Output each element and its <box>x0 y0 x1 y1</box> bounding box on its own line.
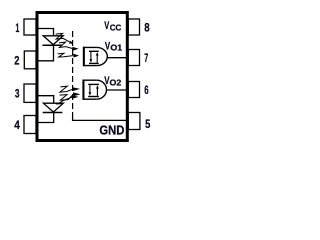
isolation barrier dashed line <box>72 31 74 115</box>
wire pin3 to LED D2 anode <box>37 96 54 104</box>
wire pin1 to LED D1 anode <box>37 29 54 36</box>
wire LED D2 cathode to pin4 <box>37 113 54 123</box>
detector U2 photodiode top bar <box>88 83 99 85</box>
svg-text:8: 8 <box>144 20 150 34</box>
svg-text:4: 4 <box>14 118 20 132</box>
photon arrow channel 2 third <box>56 95 79 104</box>
photon arrow channel 1 third <box>58 53 80 57</box>
wire LED D1 cathode to pin2 <box>37 45 54 61</box>
LED D2 triangle <box>43 103 63 112</box>
pin 6 box <box>128 82 139 98</box>
pin 4 box <box>24 116 36 134</box>
detector U2 D-shape outline <box>84 80 97 99</box>
svg-text:GND: GND <box>99 122 124 137</box>
photon arrow channel 1 first <box>56 33 73 44</box>
pin 7 box <box>128 50 139 66</box>
pin 8 box <box>128 19 139 35</box>
svg-text:O1: O1 <box>110 43 122 53</box>
wire detector U1 output to pin7 <box>107 57 128 59</box>
detector U1 left edge <box>83 47 85 67</box>
svg-text:3: 3 <box>15 87 20 101</box>
IC package body U1 <box>37 13 127 141</box>
detector U1 photodiode top bar <box>89 50 99 52</box>
svg-text:7: 7 <box>144 51 148 65</box>
photon arrow channel 1 second <box>59 42 79 51</box>
pin 2 box <box>24 51 36 69</box>
detector U1 photodiode bottom bar <box>89 62 99 64</box>
LED D2 cathode bar <box>43 112 63 114</box>
detector U1 up arrow <box>96 55 98 63</box>
svg-text:1: 1 <box>16 21 20 35</box>
LED D1 cathode bar <box>43 44 63 46</box>
svg-text:CC: CC <box>110 22 122 32</box>
svg-text:6: 6 <box>144 83 149 97</box>
detector U2 left edge <box>82 80 84 100</box>
detector U2 up arrow <box>96 88 98 96</box>
detector U1 D-shape outline <box>84 47 97 65</box>
detector U2 photodiode bottom bar <box>88 96 99 98</box>
svg-text:O2: O2 <box>110 78 122 88</box>
svg-text:5: 5 <box>145 117 150 131</box>
pin 3 box <box>24 84 36 102</box>
pin 5 box <box>128 113 140 130</box>
svg-text:2: 2 <box>14 53 19 67</box>
pin 1 box <box>24 19 36 35</box>
photon arrow channel 2 second <box>60 92 81 100</box>
photon arrow channel 2 first <box>60 86 80 92</box>
wire detector U2 output to pin6 <box>106 89 128 91</box>
detector U2 down arrow <box>89 85 91 93</box>
detector U1 down arrow <box>90 52 92 60</box>
LED D1 triangle <box>43 36 63 45</box>
GND rail wire <box>73 115 127 120</box>
